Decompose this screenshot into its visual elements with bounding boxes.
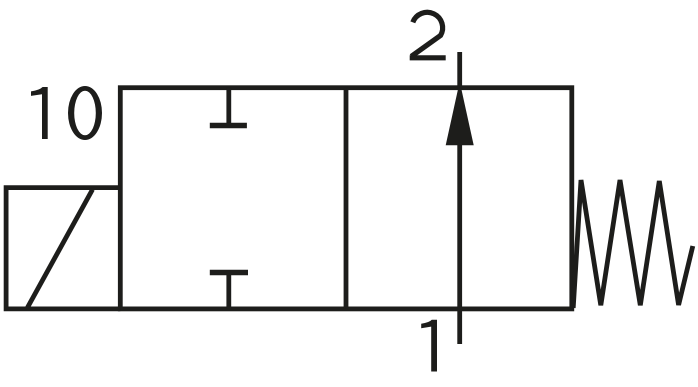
blocked port top T bar <box>210 123 247 128</box>
label 10 digit 0 <box>68 86 102 140</box>
port label 1 <box>421 320 437 372</box>
flow path arrow stem <box>457 144 462 344</box>
port label 2 <box>411 12 442 56</box>
blocked port bottom T stem <box>226 273 231 309</box>
blocked port top T stem <box>226 88 231 126</box>
position divider wire <box>344 88 349 309</box>
label 10 digit 1 <box>31 87 48 139</box>
solenoid diagonal <box>28 190 93 308</box>
port 2 stub wire <box>457 52 462 90</box>
flow path arrowhead <box>446 82 474 146</box>
solenoid box <box>6 188 120 309</box>
valve body outer box <box>120 88 572 309</box>
return spring <box>573 180 693 308</box>
blocked port bottom T bar <box>210 270 248 275</box>
